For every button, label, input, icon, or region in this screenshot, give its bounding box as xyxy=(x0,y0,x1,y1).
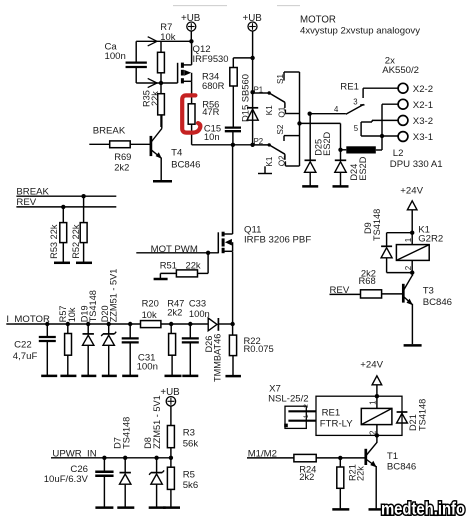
svg-text:S1: S1 xyxy=(276,74,285,84)
svg-text:1: 1 xyxy=(404,237,413,242)
svg-text:BC846: BC846 xyxy=(387,462,416,473)
svg-text:100n: 100n xyxy=(137,361,158,372)
svg-text:+UB: +UB xyxy=(243,13,263,24)
svg-text:FTR-LY: FTR-LY xyxy=(320,419,353,430)
svg-text:ES2D: ES2D xyxy=(322,131,332,155)
svg-text:UPWR_IN: UPWR_IN xyxy=(52,449,96,460)
svg-text:G2R2: G2R2 xyxy=(418,233,443,244)
svg-text:BC846: BC846 xyxy=(423,297,452,308)
svg-text:K1: K1 xyxy=(265,156,274,166)
svg-text:2k2: 2k2 xyxy=(114,161,129,172)
svg-text:2: 2 xyxy=(369,430,378,435)
svg-text:100n: 100n xyxy=(105,51,126,62)
svg-text:TS4148: TS4148 xyxy=(418,399,428,431)
svg-text:R53 22k: R53 22k xyxy=(49,224,59,259)
svg-text:T3: T3 xyxy=(423,285,434,296)
svg-text:5k6: 5k6 xyxy=(183,480,198,491)
svg-text:TMMBAT46: TMMBAT46 xyxy=(212,334,222,382)
svg-text:10uF/6.3V: 10uF/6.3V xyxy=(44,474,89,485)
svg-text:S2: S2 xyxy=(276,124,285,134)
svg-text:+24V: +24V xyxy=(360,360,383,371)
svg-text:22k: 22k xyxy=(150,91,160,106)
svg-text:MOTOR: MOTOR xyxy=(300,14,336,25)
svg-text:Q2: Q2 xyxy=(277,155,286,166)
svg-text:2: 2 xyxy=(303,404,310,408)
svg-text:47R: 47R xyxy=(202,106,219,117)
svg-text:R5: R5 xyxy=(183,469,195,480)
svg-text:DPU 330 A1: DPU 330 A1 xyxy=(390,159,443,170)
svg-text:IRFB 3206 PBF: IRFB 3206 PBF xyxy=(244,234,311,245)
svg-text:2k2: 2k2 xyxy=(299,471,314,482)
svg-text:R51: R51 xyxy=(160,260,177,271)
svg-text:Q1: Q1 xyxy=(277,106,286,117)
svg-text:I_MOTOR: I_MOTOR xyxy=(6,314,50,325)
svg-text:680R: 680R xyxy=(202,80,225,91)
svg-text:X2-2: X2-2 xyxy=(413,84,433,95)
svg-text:ES2D: ES2D xyxy=(358,156,368,180)
svg-text:1: 1 xyxy=(303,414,310,418)
svg-text:ZZM51 - 5V1: ZZM51 - 5V1 xyxy=(109,269,119,323)
svg-text:R68: R68 xyxy=(359,275,376,286)
svg-text:TS4148: TS4148 xyxy=(88,290,98,322)
svg-text:10n: 10n xyxy=(204,131,220,142)
svg-text:MOT PWM: MOT PWM xyxy=(151,244,198,255)
svg-text:D15 SB560: D15 SB560 xyxy=(240,74,251,122)
svg-text:56k: 56k xyxy=(183,438,199,449)
svg-text:REV: REV xyxy=(16,197,36,208)
svg-text:IRF9530: IRF9530 xyxy=(193,53,229,64)
svg-text:TS4148: TS4148 xyxy=(121,417,131,449)
svg-text:4xvystup 2xvstup analogovy: 4xvystup 2xvstup analogovy xyxy=(300,26,420,37)
svg-text:2: 2 xyxy=(404,265,413,270)
svg-text:10k: 10k xyxy=(142,309,157,320)
svg-text:L2: L2 xyxy=(393,148,404,159)
svg-text:NSL-25/2: NSL-25/2 xyxy=(268,394,309,405)
svg-text:+UB: +UB xyxy=(160,387,180,398)
svg-text:3: 3 xyxy=(353,98,357,107)
svg-text:10k: 10k xyxy=(160,31,175,42)
svg-text:22k: 22k xyxy=(355,466,365,481)
svg-text:X2-1: X2-1 xyxy=(413,100,433,111)
svg-text:4,7uF: 4,7uF xyxy=(13,351,38,362)
svg-text:REV: REV xyxy=(330,285,350,296)
svg-text:P2: P2 xyxy=(254,137,264,146)
svg-text:C22: C22 xyxy=(14,340,32,351)
svg-text:ZZM51 - 5V1: ZZM51 - 5V1 xyxy=(152,395,162,449)
svg-text:X3-2: X3-2 xyxy=(413,116,433,127)
svg-text:BREAK: BREAK xyxy=(93,125,126,136)
svg-text:5: 5 xyxy=(354,124,359,133)
svg-text:BREAK: BREAK xyxy=(16,187,49,198)
svg-text:RE1: RE1 xyxy=(322,408,341,419)
svg-text:P1: P1 xyxy=(254,85,264,94)
svg-text:R3: R3 xyxy=(183,428,195,439)
svg-text:T1: T1 xyxy=(387,451,398,462)
svg-text:+UB: +UB xyxy=(181,13,201,24)
svg-text:TS4148: TS4148 xyxy=(372,209,382,241)
svg-text:+24V: +24V xyxy=(400,186,423,197)
svg-text:R52 22k: R52 22k xyxy=(71,224,81,259)
svg-text:10k: 10k xyxy=(67,307,77,322)
svg-text:R20: R20 xyxy=(142,298,159,309)
svg-text:1: 1 xyxy=(369,400,378,405)
svg-text:X3-1: X3-1 xyxy=(413,132,433,143)
svg-text:BC846: BC846 xyxy=(171,160,200,171)
svg-text:22k: 22k xyxy=(186,260,201,271)
svg-text:R0.075: R0.075 xyxy=(244,343,274,354)
svg-text:RE1: RE1 xyxy=(340,81,359,92)
svg-text:T4: T4 xyxy=(171,148,183,159)
svg-text:4: 4 xyxy=(334,105,339,114)
svg-text:2k2: 2k2 xyxy=(167,307,182,318)
svg-text:AK550/2: AK550/2 xyxy=(382,65,419,76)
svg-text:K1: K1 xyxy=(265,105,274,115)
svg-text:100n: 100n xyxy=(189,308,210,319)
svg-text:medteh.info: medteh.info xyxy=(381,499,465,519)
svg-text:M1/M2: M1/M2 xyxy=(248,449,277,460)
